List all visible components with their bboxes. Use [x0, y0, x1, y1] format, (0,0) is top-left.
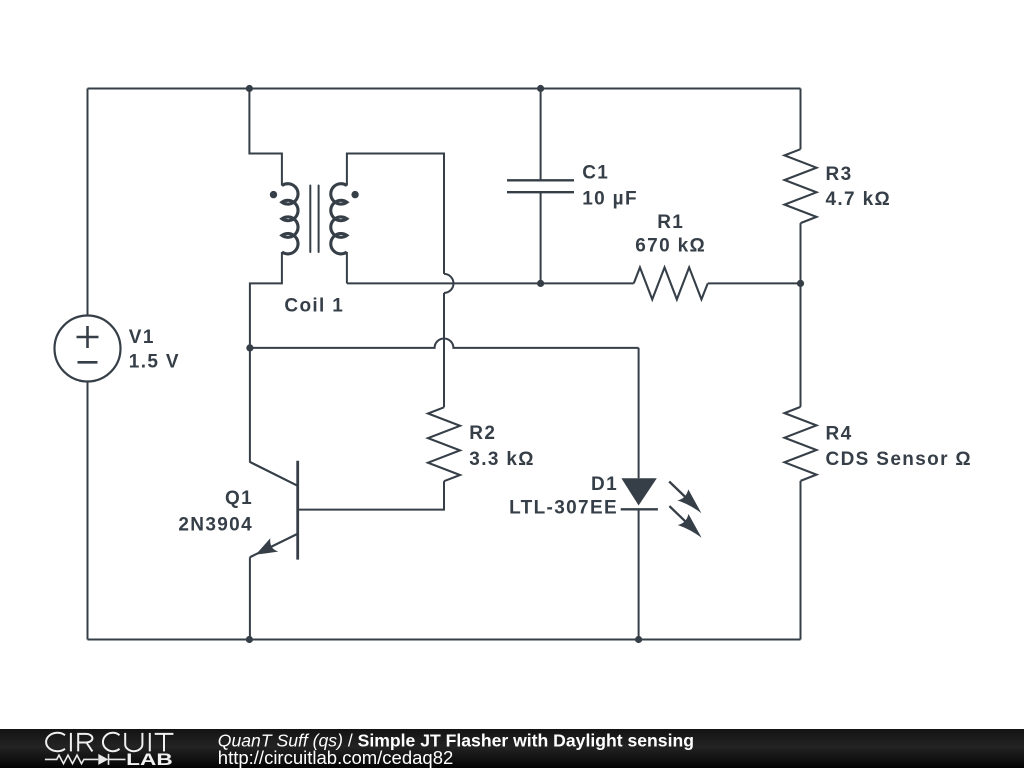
svg-text:D1: D1	[591, 474, 618, 495]
logo CIRCUIT lettering	[46, 733, 173, 752]
LED D1 light arrow 2 shaft	[669, 506, 690, 526]
wire secondary down to R2	[443, 293, 445, 407]
wire right rail bottom (R4 to bottom)	[800, 481, 802, 640]
footer bar	[0, 729, 1024, 768]
svg-text:R2: R2	[469, 423, 496, 444]
svg-text:Coil 1: Coil 1	[284, 295, 344, 316]
wire mid node horizontal right part	[708, 282, 801, 284]
svg-text:http://circuitlab.com/cedaq82: http://circuitlab.com/cedaq82	[218, 747, 453, 768]
svg-text:R3: R3	[826, 164, 853, 185]
wire right rail top (to R3)	[800, 89, 802, 150]
svg-text:4.7 kΩ: 4.7 kΩ	[826, 189, 892, 210]
svg-text:10 µF: 10 µF	[582, 188, 638, 209]
node dot collector junction	[246, 344, 253, 351]
logo diode triangle	[98, 754, 108, 765]
svg-text:R4: R4	[826, 423, 853, 444]
wire right rail mid (R3 to R4)	[800, 223, 802, 407]
resistor R3	[785, 149, 817, 223]
transistor Q1	[249, 461, 297, 560]
wire secondary bottom lead	[346, 252, 348, 283]
svg-text:LAB: LAB	[126, 750, 173, 768]
wire hop vertical over node wire	[444, 274, 454, 293]
wire emitter vertical	[249, 557, 251, 639]
LED D1 light arrow 1 shaft	[669, 482, 690, 502]
wire left rail upper (to V1)	[87, 89, 89, 316]
resistor R4	[785, 407, 817, 481]
wire C1 top lead	[540, 89, 542, 181]
LED D1 light arrow 1 head	[677, 489, 701, 513]
logo resistor-diode glyph	[45, 754, 126, 765]
resistor R1	[634, 267, 708, 299]
node dot bottom D1 junction	[635, 636, 642, 643]
capacitor C1 plates	[507, 180, 574, 192]
node dot top C1 junction	[537, 85, 544, 92]
wire primary top lead	[249, 89, 282, 186]
wire R2 bottom to base	[298, 481, 444, 509]
wire mid node horizontal left part	[347, 282, 634, 284]
svg-text:Q1: Q1	[225, 488, 253, 509]
wire secondary top lead	[347, 154, 444, 274]
transformer core lines	[310, 186, 318, 253]
transistor Q1 collector diagonal	[249, 462, 297, 486]
LED D1 light arrow 2 head	[678, 514, 702, 538]
transistor Q1 emitter arrow	[256, 538, 279, 554]
resistor R2	[428, 407, 460, 481]
svg-text:R1: R1	[657, 212, 684, 233]
wire D1 anode vertical	[638, 348, 640, 478]
svg-text:2N3904: 2N3904	[178, 515, 253, 536]
node dot C1 bottom junction	[537, 280, 544, 287]
svg-text:LTL-307EE: LTL-307EE	[509, 497, 618, 518]
node dot right rail R1 junction	[797, 280, 804, 287]
transformer Coil 1 secondary winding	[331, 184, 347, 254]
node dot bottom-left junction	[246, 636, 253, 643]
svg-text:670 kΩ: 670 kΩ	[635, 235, 706, 256]
wire primary bottom lead	[250, 252, 282, 348]
wire top rail	[88, 88, 801, 90]
svg-text:C1: C1	[582, 163, 609, 184]
transformer primary phase dot	[270, 191, 277, 198]
transistor Q1 base bar	[296, 461, 299, 560]
transistor Q1 emitter diagonal	[250, 534, 298, 557]
voltage source V1	[55, 316, 121, 382]
wire collector vertical	[249, 348, 251, 462]
transformer Coil 1 primary winding	[282, 184, 298, 254]
wire left rail lower (V1 to bottom)	[87, 382, 89, 640]
wire bottom rail	[88, 639, 801, 641]
transformer secondary phase dot	[351, 191, 358, 198]
LED D1 cathode bar	[621, 508, 658, 510]
wire D1 cathode vertical	[638, 509, 640, 639]
node dot top-left junction	[246, 85, 253, 92]
svg-text:CDS Sensor Ω: CDS Sensor Ω	[826, 449, 973, 470]
svg-text:V1: V1	[129, 327, 155, 348]
wire base node horizontal with hop	[250, 339, 639, 348]
wire C1 bottom lead	[540, 192, 542, 283]
svg-text:3.3 kΩ: 3.3 kΩ	[469, 449, 535, 470]
svg-text:1.5 V: 1.5 V	[129, 351, 180, 372]
LED D1 triangle	[621, 478, 656, 505]
